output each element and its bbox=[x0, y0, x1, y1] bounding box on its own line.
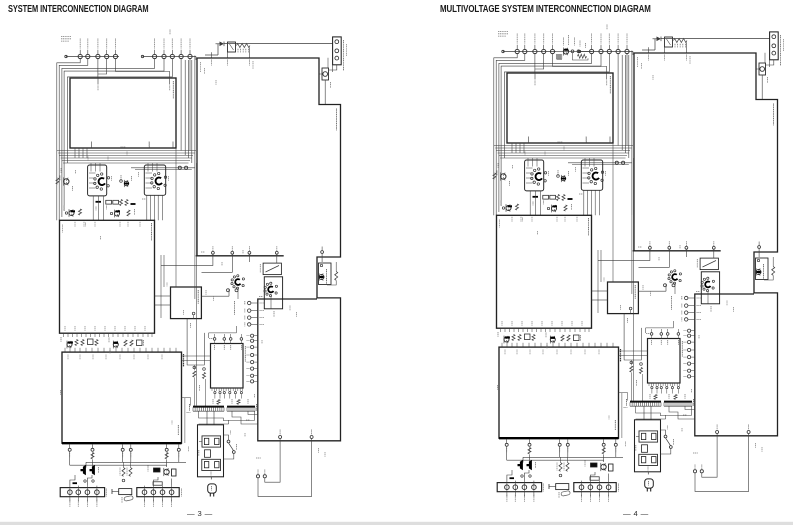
resistor R303 bbox=[56, 178, 59, 184]
wire AV bottom route bbox=[629, 307, 632, 310]
wire AV feeds bbox=[597, 250, 599, 282]
connector pair CN303 bbox=[178, 166, 181, 169]
terminal strip TB2 bbox=[574, 483, 616, 492]
label TO ANTENNA bbox=[61, 36, 71, 38]
label vertical regulator bbox=[326, 269, 328, 284]
module CRT socket B box bbox=[581, 160, 602, 190]
switch S901 bbox=[227, 440, 230, 443]
socket V2 bbox=[157, 187, 159, 189]
block PIF-deflection PCB and power supply outline bbox=[197, 58, 341, 441]
speaker SP2 bbox=[527, 460, 532, 470]
wire row1 drops bbox=[97, 59, 99, 78]
transistor Q304 bbox=[115, 211, 120, 216]
page number 3 bbox=[187, 509, 213, 518]
connector pair below V3 bbox=[664, 284, 667, 287]
socket V1 bbox=[537, 183, 539, 185]
wire bus to socket B bbox=[568, 162, 632, 164]
wire right bundle of CRT block bbox=[184, 60, 186, 155]
module multivoltage adapter Q151 bbox=[563, 49, 568, 54]
comb connector CN601 bbox=[193, 406, 224, 408]
page number 4 bbox=[623, 509, 649, 518]
label vertical AV PCB bbox=[634, 285, 636, 299]
fuse F801 bbox=[322, 68, 329, 80]
scan edge shadow bottom bbox=[0, 522, 793, 525]
pin labels MAIN bottom inside bbox=[63, 333, 65, 337]
pin stubs CRT block bbox=[534, 73, 536, 80]
socket V3 focus pack bbox=[236, 287, 238, 289]
wire row1 drops bbox=[534, 54, 536, 73]
wire stubs into audio PCB bbox=[501, 343, 503, 347]
wire long verticals to comb bbox=[633, 158, 635, 401]
relay K801 bbox=[665, 37, 673, 47]
label vertical CRT PCB bbox=[172, 81, 174, 99]
wire degauss loops bbox=[258, 441, 312, 497]
transistor Q801 bbox=[756, 270, 761, 275]
diode D801 bbox=[657, 37, 662, 42]
transistor Q303 bbox=[69, 211, 74, 216]
module CRT socket B box bbox=[144, 165, 165, 195]
wire top bus to interlock bbox=[224, 43, 333, 45]
label vertical audio PCB bbox=[620, 349, 622, 362]
wire long verticals to comb bbox=[196, 163, 198, 406]
block MAIN PCB bbox=[497, 215, 592, 328]
pin labels inside audio top bbox=[67, 355, 69, 360]
wire comb feeds down bbox=[636, 407, 692, 416]
choke L902 bbox=[202, 459, 221, 470]
wire AV feeds bbox=[160, 255, 162, 287]
socket V4 bbox=[269, 295, 271, 297]
pin row IC top bbox=[650, 333, 653, 336]
wire TB2 leads bbox=[153, 477, 158, 486]
fuse F801 bbox=[759, 63, 766, 75]
pin stubs power supply bottom bbox=[279, 436, 282, 439]
module socket V4 box bbox=[701, 272, 719, 304]
pin above regulator notch bbox=[758, 246, 761, 249]
heater hatch H151 bbox=[556, 54, 558, 59]
connector degauss CN751 bbox=[256, 475, 259, 478]
label TO ANTENNA bbox=[498, 31, 508, 33]
ground lug bbox=[119, 489, 132, 495]
connector column CN603 bbox=[688, 329, 691, 332]
left schematic bbox=[56, 30, 347, 507]
socket V3 focus pack bbox=[673, 282, 675, 284]
heatsink box Q801 bbox=[319, 263, 332, 285]
block MAIN PCB bbox=[60, 220, 155, 333]
node antenna terminal row CN101 bbox=[503, 51, 556, 53]
labels adapter bbox=[563, 38, 565, 46]
comb connector CN602 bbox=[227, 406, 255, 408]
block IC601 signal PCB bbox=[211, 344, 244, 389]
resistors R401 bbox=[75, 340, 78, 346]
transistor Q302 bbox=[561, 176, 565, 180]
connector column CN603 bbox=[251, 334, 254, 337]
resistor R303 bbox=[493, 173, 496, 179]
transistor Q402 bbox=[113, 342, 118, 347]
wire adapter bus bbox=[556, 50, 592, 52]
pin rows IC bottom bbox=[648, 383, 650, 386]
wire comb feeds down bbox=[199, 412, 255, 421]
wire right bundle of CRT block bbox=[621, 55, 623, 150]
wire audio to IC bbox=[182, 355, 211, 357]
diode D801 bbox=[220, 42, 225, 47]
right-half extra cluster bbox=[556, 35, 592, 60]
wire socket feed drops bbox=[511, 143, 513, 153]
pin labels inside audio top bbox=[504, 350, 506, 355]
label vertical AV PCB bbox=[197, 290, 199, 304]
wire socket A feeds bbox=[526, 167, 533, 169]
transistor Q801 bbox=[319, 275, 324, 280]
socket V1 bbox=[100, 188, 102, 190]
wire bus to socket B bbox=[131, 167, 195, 169]
plug AC P901 bbox=[210, 477, 212, 480]
meter box M1 bbox=[700, 258, 718, 270]
resistor R452 bbox=[602, 448, 605, 454]
label vertical PIF bbox=[336, 109, 338, 131]
relay K801 bbox=[228, 42, 236, 52]
connector degauss CN751 bbox=[693, 470, 696, 473]
wire socket feed drops bbox=[74, 148, 76, 158]
label vertical regulator bbox=[763, 264, 765, 279]
label vertical CRT PCB bbox=[609, 76, 611, 94]
block CRT display unit bbox=[507, 73, 613, 143]
wire TB1 leads bbox=[507, 470, 512, 481]
module CRT socket A box bbox=[525, 160, 544, 191]
label TO V DEFLECTION bbox=[234, 301, 236, 315]
wire bundle left of CRT block bbox=[494, 54, 517, 216]
resistor R451 bbox=[528, 448, 531, 454]
transistor Q301 bbox=[501, 174, 506, 179]
title left bbox=[8, 4, 149, 15]
resistor bar R311 bbox=[533, 196, 539, 198]
speaker SP2 bbox=[90, 465, 95, 475]
choke L902 bbox=[639, 454, 658, 465]
choke L901 bbox=[202, 436, 221, 447]
block PIF-deflection PCB and power supply outline bbox=[634, 53, 778, 436]
wire row2 long drops bbox=[180, 59, 182, 151]
pin labels inside MAIN top bbox=[511, 217, 513, 222]
wire bundle left of CRT block bbox=[57, 59, 80, 221]
misc reference labels bbox=[87, 157, 89, 161]
heatsink box Q801 bbox=[756, 258, 769, 280]
connector interlock CN801 bbox=[333, 37, 342, 65]
socket V2 bbox=[594, 182, 596, 184]
resistor R305 bbox=[564, 205, 567, 211]
block AV terminal PCB bbox=[608, 282, 639, 314]
meter box M1 bbox=[263, 263, 281, 275]
terminal strip TB2 bbox=[137, 488, 179, 497]
transistor Q401 bbox=[504, 337, 509, 342]
pin labels PIF top bbox=[648, 55, 650, 61]
connector column CN304 bbox=[248, 301, 251, 304]
switch S901 bbox=[664, 435, 667, 438]
label vertical inside IC bbox=[681, 341, 683, 357]
wire horizontal bus under CRT block bbox=[57, 150, 196, 152]
pin row IC top bbox=[213, 338, 216, 341]
wire speaker bus bbox=[86, 461, 186, 463]
pin row audio bottom bbox=[69, 445, 71, 449]
wire AV bottom route bbox=[192, 312, 195, 315]
transistor Q304 bbox=[552, 206, 557, 211]
right schematic (multivoltage) bbox=[493, 25, 784, 502]
speaker SP1 bbox=[518, 460, 523, 470]
module socket V4 box bbox=[264, 277, 282, 309]
jumper above TB2 bbox=[153, 482, 162, 485]
pin row PIF bottom bbox=[649, 246, 652, 249]
resistor R851 bbox=[772, 267, 775, 276]
plug AC P901 bbox=[647, 472, 649, 475]
block audio output PCB bbox=[499, 347, 619, 438]
label vertical MAIN PCB bbox=[151, 223, 153, 241]
block CRT display unit bbox=[70, 78, 176, 148]
socket V4 bbox=[706, 290, 708, 292]
label AC INTERLOCK vertical bbox=[780, 35, 782, 66]
pin above regulator notch bbox=[321, 251, 324, 254]
resistor R452 bbox=[165, 453, 168, 459]
resistor R851 bbox=[335, 272, 338, 281]
resistors R402 bbox=[124, 340, 127, 346]
ground lug bbox=[556, 484, 569, 490]
wire row2 long drops bbox=[617, 54, 619, 146]
wire socket to MAIN verticals bbox=[529, 191, 531, 215]
speaker SP1 bbox=[81, 465, 86, 475]
wire socket to MAIN verticals bbox=[92, 196, 94, 220]
pin stubs power supply bottom bbox=[716, 431, 719, 434]
resistor chain R801 bbox=[674, 39, 687, 43]
wire top bus to interlock bbox=[661, 38, 770, 40]
transistor Q301 bbox=[64, 179, 69, 184]
wire stubs into audio PCB bbox=[64, 348, 66, 352]
wire audio to IC bbox=[619, 350, 648, 352]
pin labels MAIN bottom inside bbox=[500, 328, 502, 332]
title right bbox=[440, 4, 651, 15]
terminal strip TB1 bbox=[497, 483, 541, 492]
wire horizontal bus under CRT block bbox=[494, 145, 633, 147]
wire TB2 leads bbox=[590, 472, 595, 481]
module CRT socket A box bbox=[88, 165, 107, 196]
pin rows IC bottom bbox=[211, 388, 213, 391]
node antenna terminal row CN101 bbox=[66, 56, 119, 58]
fuse F901 bbox=[205, 450, 211, 458]
pin row audio bottom bbox=[506, 440, 508, 444]
misc reference labels bbox=[524, 152, 526, 156]
comb connector CN602 bbox=[664, 401, 692, 403]
wire socket A feeds bbox=[89, 172, 96, 174]
block IC601 signal PCB bbox=[648, 339, 681, 384]
pin labels PIF top bbox=[211, 60, 213, 66]
wire TB1 leads bbox=[70, 475, 75, 486]
wire socket B feeds bbox=[146, 172, 153, 174]
resistor R451 bbox=[91, 453, 94, 459]
jumper above TB2 bbox=[590, 477, 599, 480]
headphone jack J451 bbox=[591, 463, 598, 467]
block power input filter bbox=[635, 420, 661, 472]
label vertical inside IC bbox=[244, 346, 246, 362]
terminal strip TB1 bbox=[60, 488, 104, 497]
resistors R402 bbox=[561, 335, 564, 341]
transistor Q402 bbox=[550, 337, 555, 342]
block audio output PCB bbox=[62, 352, 182, 443]
transistor Q303 bbox=[506, 206, 511, 211]
connector pair CN303 bbox=[615, 161, 618, 164]
node AV terminal row CN102 bbox=[580, 51, 634, 53]
label AC INTERLOCK vertical bbox=[343, 40, 345, 71]
pin labels inside MAIN top bbox=[74, 222, 76, 227]
label TO V DEFLECTION bbox=[671, 296, 673, 310]
parts under IC bbox=[640, 368, 643, 374]
wire speaker bus bbox=[523, 456, 623, 458]
resistor bar R311 bbox=[96, 201, 102, 203]
wire mid web bbox=[598, 251, 650, 260]
wire socket B feeds bbox=[583, 167, 590, 169]
block AV terminal PCB bbox=[171, 287, 202, 319]
choke L901 bbox=[639, 431, 658, 442]
label vertical PIF bbox=[773, 104, 775, 126]
headphone jack J451 bbox=[154, 468, 161, 472]
fuse F901 bbox=[642, 445, 648, 453]
resistor R305 bbox=[127, 210, 130, 216]
connector column CN304 bbox=[685, 296, 688, 299]
block power input filter bbox=[198, 425, 224, 477]
wire above IC bbox=[646, 327, 674, 329]
connector interlock CN801 bbox=[770, 32, 779, 60]
label vertical audio PCB bbox=[183, 354, 185, 367]
comb connector CN601 bbox=[630, 401, 661, 403]
pin row PIF bottom bbox=[212, 251, 215, 254]
transistor Q401 bbox=[67, 342, 72, 347]
pin stubs CRT block bbox=[97, 78, 99, 85]
wire mid web bbox=[161, 256, 213, 265]
resistor R151 bbox=[578, 54, 587, 58]
capacitors C451 bbox=[122, 468, 125, 477]
parts under IC bbox=[203, 373, 206, 379]
transistor Q302 bbox=[124, 181, 128, 185]
label vertical MAIN PCB bbox=[588, 218, 590, 236]
resistor chain R801 bbox=[237, 44, 250, 48]
connector pair below V3 bbox=[227, 289, 230, 292]
node AV terminal row CN102 bbox=[143, 56, 197, 58]
resistors R401 bbox=[512, 335, 515, 341]
capacitors C451 bbox=[559, 463, 562, 472]
wire above IC bbox=[209, 332, 237, 334]
wire degauss loops bbox=[695, 436, 749, 492]
